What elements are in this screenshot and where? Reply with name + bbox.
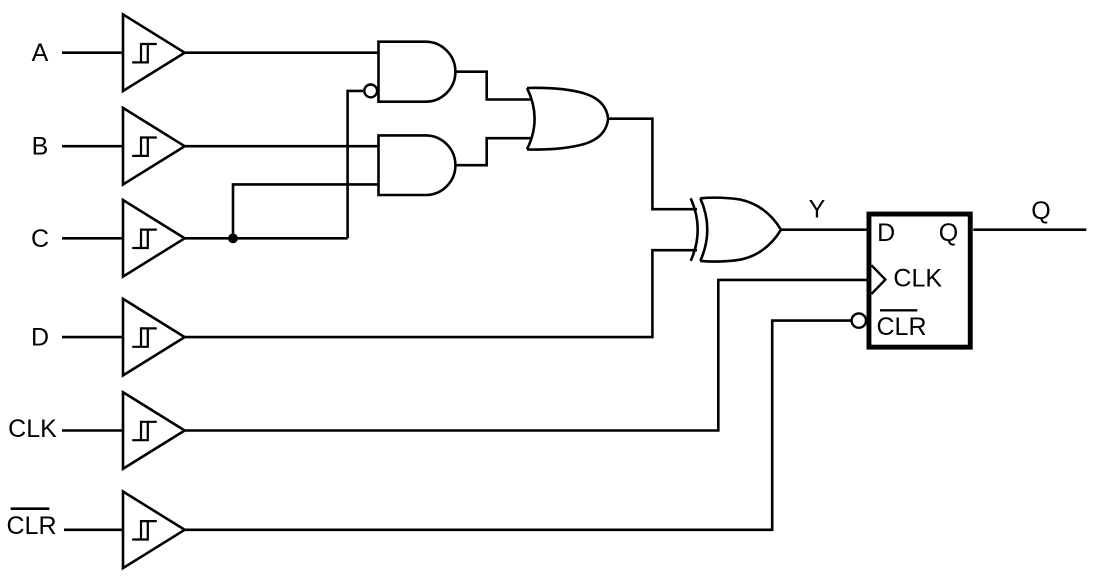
wire XOR output Y to flip-flop D input <box>781 228 867 231</box>
wire OR output to XOR top input <box>608 119 697 210</box>
schmitt buffer A <box>123 14 185 91</box>
wire CLK input stub <box>62 429 123 432</box>
wire B buffer output to AND2 <box>185 145 379 148</box>
inversion bubble at AND1 input <box>364 85 377 98</box>
schmitt buffer C <box>123 200 185 277</box>
svg-text:D: D <box>31 323 49 351</box>
wire C branch up to AND1 inverted input <box>348 91 364 238</box>
wire CLK buffer output to flip-flop CLK input <box>185 280 868 431</box>
svg-text:Q: Q <box>1031 197 1050 225</box>
schmitt buffer CLK <box>123 392 185 469</box>
svg-text:CLR: CLR <box>6 512 56 540</box>
schmitt buffer D <box>123 299 185 376</box>
wire AND1 output to OR top input <box>455 72 532 100</box>
wire AND2 output to OR bottom input <box>455 138 532 165</box>
wire D buffer output to XOR lower input <box>185 250 697 337</box>
wire C buffer output <box>185 237 348 240</box>
junction dot on C net <box>228 234 238 244</box>
wire flip-flop Q output <box>973 228 1086 231</box>
flip-flop clock caret <box>871 265 885 294</box>
svg-text:Y: Y <box>809 196 826 224</box>
svg-text:C: C <box>31 225 49 253</box>
wire CLR input stub <box>64 528 123 531</box>
svg-text:CLK: CLK <box>8 415 57 443</box>
svg-text:CLK: CLK <box>893 265 942 293</box>
AND gate 2 (B and C) <box>379 135 456 195</box>
wire B input stub <box>62 145 123 148</box>
inversion bubble at flip-flop CLR input <box>852 313 866 327</box>
svg-text:A: A <box>32 39 49 67</box>
overline for input CLR label <box>11 507 50 510</box>
wire A input stub <box>62 51 123 54</box>
wire A buffer output to AND1 <box>185 51 379 54</box>
schmitt buffer B <box>123 108 185 185</box>
svg-text:Q: Q <box>939 219 958 247</box>
D flip-flop body <box>869 214 970 347</box>
XOR gate body <box>700 198 781 262</box>
schmitt buffer CLR <box>123 492 185 569</box>
AND gate 1 (A and not-C) <box>379 42 456 102</box>
overline for flip-flop CLR label <box>880 309 917 311</box>
svg-text:B: B <box>32 132 49 160</box>
OR gate <box>527 88 608 150</box>
wire CLR buffer output to flip-flop CLR bubble <box>185 321 852 530</box>
svg-text:CLR: CLR <box>877 313 927 341</box>
wire C branch up to AND2 lower input <box>233 184 379 238</box>
svg-text:D: D <box>877 219 895 247</box>
wire C input stub <box>62 237 123 240</box>
wire D input stub <box>62 336 123 339</box>
XOR gate input arc <box>691 198 698 261</box>
